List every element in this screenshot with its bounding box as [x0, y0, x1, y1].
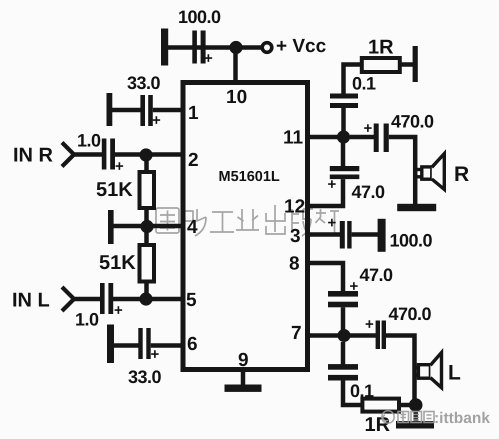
ground speaker R bar: [397, 204, 436, 211]
wire pin5: [113, 297, 184, 302]
speaker R stubs: [415, 170, 422, 177]
speaker L box: [418, 365, 430, 379]
svg-text:7: 7: [291, 323, 302, 344]
wire node7 to C11: [350, 333, 377, 338]
svg-text:2: 2: [188, 150, 199, 171]
speaker L stubs: [415, 368, 420, 376]
ground bar pin6 cap: [107, 325, 114, 364]
wire C9 to bar: [352, 232, 378, 237]
wire Vcc rail horizontal: [167, 45, 261, 50]
svg-text:+: +: [328, 215, 337, 232]
wire pin9 vertical: [241, 370, 246, 386]
svg-text:51K: 51K: [99, 252, 136, 274]
svg-text:1: 1: [188, 103, 199, 124]
wire pin11: [306, 135, 344, 140]
svg-text:+: +: [152, 112, 161, 129]
svg-text:1.0: 1.0: [77, 131, 101, 151]
svg-text:470.0: 470.0: [389, 304, 432, 324]
terminal Vcc open circle: [262, 43, 272, 53]
node pin7 junction: [338, 329, 351, 342]
svg-text:100.0: 100.0: [178, 7, 221, 27]
svg-text:33.0: 33.0: [128, 367, 162, 387]
wire C10 down to node7: [341, 307, 346, 335]
svg-text:470.0: 470.0: [391, 112, 434, 132]
wire R4 to node gnd: [399, 403, 416, 408]
node pin2 junction: [139, 148, 152, 161]
svg-text:+: +: [115, 158, 124, 175]
svg-text:100.0: 100.0: [390, 231, 433, 251]
capacitor C11 470.0 plates: [376, 321, 386, 350]
node pin11 junction: [337, 130, 350, 143]
wire arrow to C4: [73, 297, 100, 302]
wire arrow to C3: [73, 152, 102, 157]
watermark ittbank bottom right: [382, 411, 434, 423]
wire C8 down and to pin12: [306, 179, 343, 206]
svg-text:1.0: 1.0: [75, 310, 99, 330]
svg-text:11: 11: [283, 128, 304, 149]
svg-text:12: 12: [284, 197, 305, 218]
svg-text:R: R: [454, 163, 469, 186]
svg-text:47.0: 47.0: [352, 182, 386, 202]
node pin4 junction: [140, 220, 153, 233]
svg-text:33.0: 33.0: [127, 73, 161, 93]
wire bar to C5: [113, 343, 139, 348]
op-amp IC U1 M51601L body: [183, 83, 308, 370]
wire node11 up to C6: [341, 103, 346, 137]
wire pin10 vertical: [233, 48, 238, 84]
svg-text:+ Vcc: + Vcc: [276, 36, 327, 57]
wire pin4: [113, 224, 184, 229]
svg-text:6: 6: [187, 334, 198, 355]
svg-text:1R: 1R: [368, 37, 394, 59]
svg-text:+: +: [151, 346, 160, 363]
svg-text:9: 9: [238, 350, 249, 371]
speaker R box: [422, 167, 432, 179]
svg-text:IN L: IN L: [12, 290, 50, 312]
svg-text::ittbank: :ittbank: [434, 410, 490, 427]
svg-text:M51601L: M51601L: [219, 169, 280, 185]
ground bar pin4: [108, 210, 114, 244]
svg-text:1R: 1R: [365, 414, 391, 436]
capacitor C2 33.0 plates: [140, 95, 152, 126]
ground speaker L bar: [396, 421, 434, 429]
terminal input arrow R: [62, 143, 74, 167]
wire C12 down to R4: [343, 381, 363, 406]
svg-text:5: 5: [186, 290, 197, 311]
svg-text:IN R: IN R: [13, 145, 54, 167]
wire node to ground bar: [413, 405, 418, 422]
svg-text:51K: 51K: [96, 179, 133, 201]
capacitor C12 0.1 plates: [328, 364, 358, 380]
wire node11 to C7: [350, 135, 374, 140]
capacitor C8 47.0 plates: [330, 166, 360, 179]
svg-text:+: +: [204, 50, 213, 67]
wire node4 to node5: [144, 227, 149, 300]
ground bar top decoupling: [161, 29, 168, 66]
svg-text:3: 3: [290, 226, 301, 247]
wire node7 down to C12: [341, 342, 346, 365]
svg-text:+: +: [365, 316, 374, 333]
resistor R2 51K body: [140, 245, 155, 282]
wire pin8 down to C10: [306, 263, 343, 291]
capacitor C7 470.0 plates: [374, 124, 389, 153]
speaker L cone: [430, 353, 441, 388]
svg-text:+: +: [114, 302, 123, 319]
capacitor C5 33.0 plates: [138, 328, 150, 359]
ground bar pin1 cap: [107, 93, 113, 126]
wire node11 down to C8: [341, 143, 346, 166]
svg-text:4: 4: [187, 217, 198, 238]
resistor R3 1R body: [362, 58, 400, 72]
resistor R1 51K body: [140, 172, 155, 208]
wire node2 to node4: [144, 155, 149, 227]
capacitor C1 100.0 plates: [192, 31, 205, 64]
capacitor C4 1.0 plates: [100, 283, 113, 314]
wire C11 to speaker L: [386, 336, 415, 402]
ground bar C9: [378, 219, 386, 252]
terminal input arrow L: [62, 287, 74, 311]
svg-text:+: +: [364, 120, 373, 137]
wire pin6: [151, 343, 184, 348]
svg-text:47.0: 47.0: [360, 265, 394, 285]
wire bar to C2: [112, 108, 141, 113]
node pin5 junction: [139, 292, 152, 305]
capacitor C9 100.0 plates: [340, 221, 352, 249]
svg-text:10: 10: [226, 87, 247, 108]
capacitor C10 47.0 plates: [328, 291, 358, 307]
resistor R4 1R body: [362, 399, 399, 412]
capacitor C6 0.1 plates: [330, 94, 358, 109]
speaker R cone: [432, 154, 445, 190]
watermark 国防工业出版社 (stylized gray, behind ink): [156, 205, 340, 236]
wire C7 to speaker R: [389, 137, 415, 204]
node Vcc junction: [229, 41, 242, 54]
wire pin2: [115, 152, 185, 157]
svg-text:+: +: [328, 176, 337, 193]
svg-text:0.1: 0.1: [352, 74, 376, 94]
svg-text:L: L: [448, 362, 461, 385]
wire C6 up and over to R3: [344, 65, 363, 94]
capacitor C3 1.0 plates: [102, 139, 115, 170]
wire pin7: [306, 333, 344, 338]
wire R3 to bar: [400, 62, 413, 67]
node speaker L gnd junction: [409, 398, 423, 412]
wire pin3: [306, 232, 340, 237]
ground bar R3: [413, 46, 418, 82]
ground pin9 bar: [225, 385, 262, 392]
wire pin1: [153, 108, 184, 113]
svg-text:8: 8: [289, 254, 300, 275]
